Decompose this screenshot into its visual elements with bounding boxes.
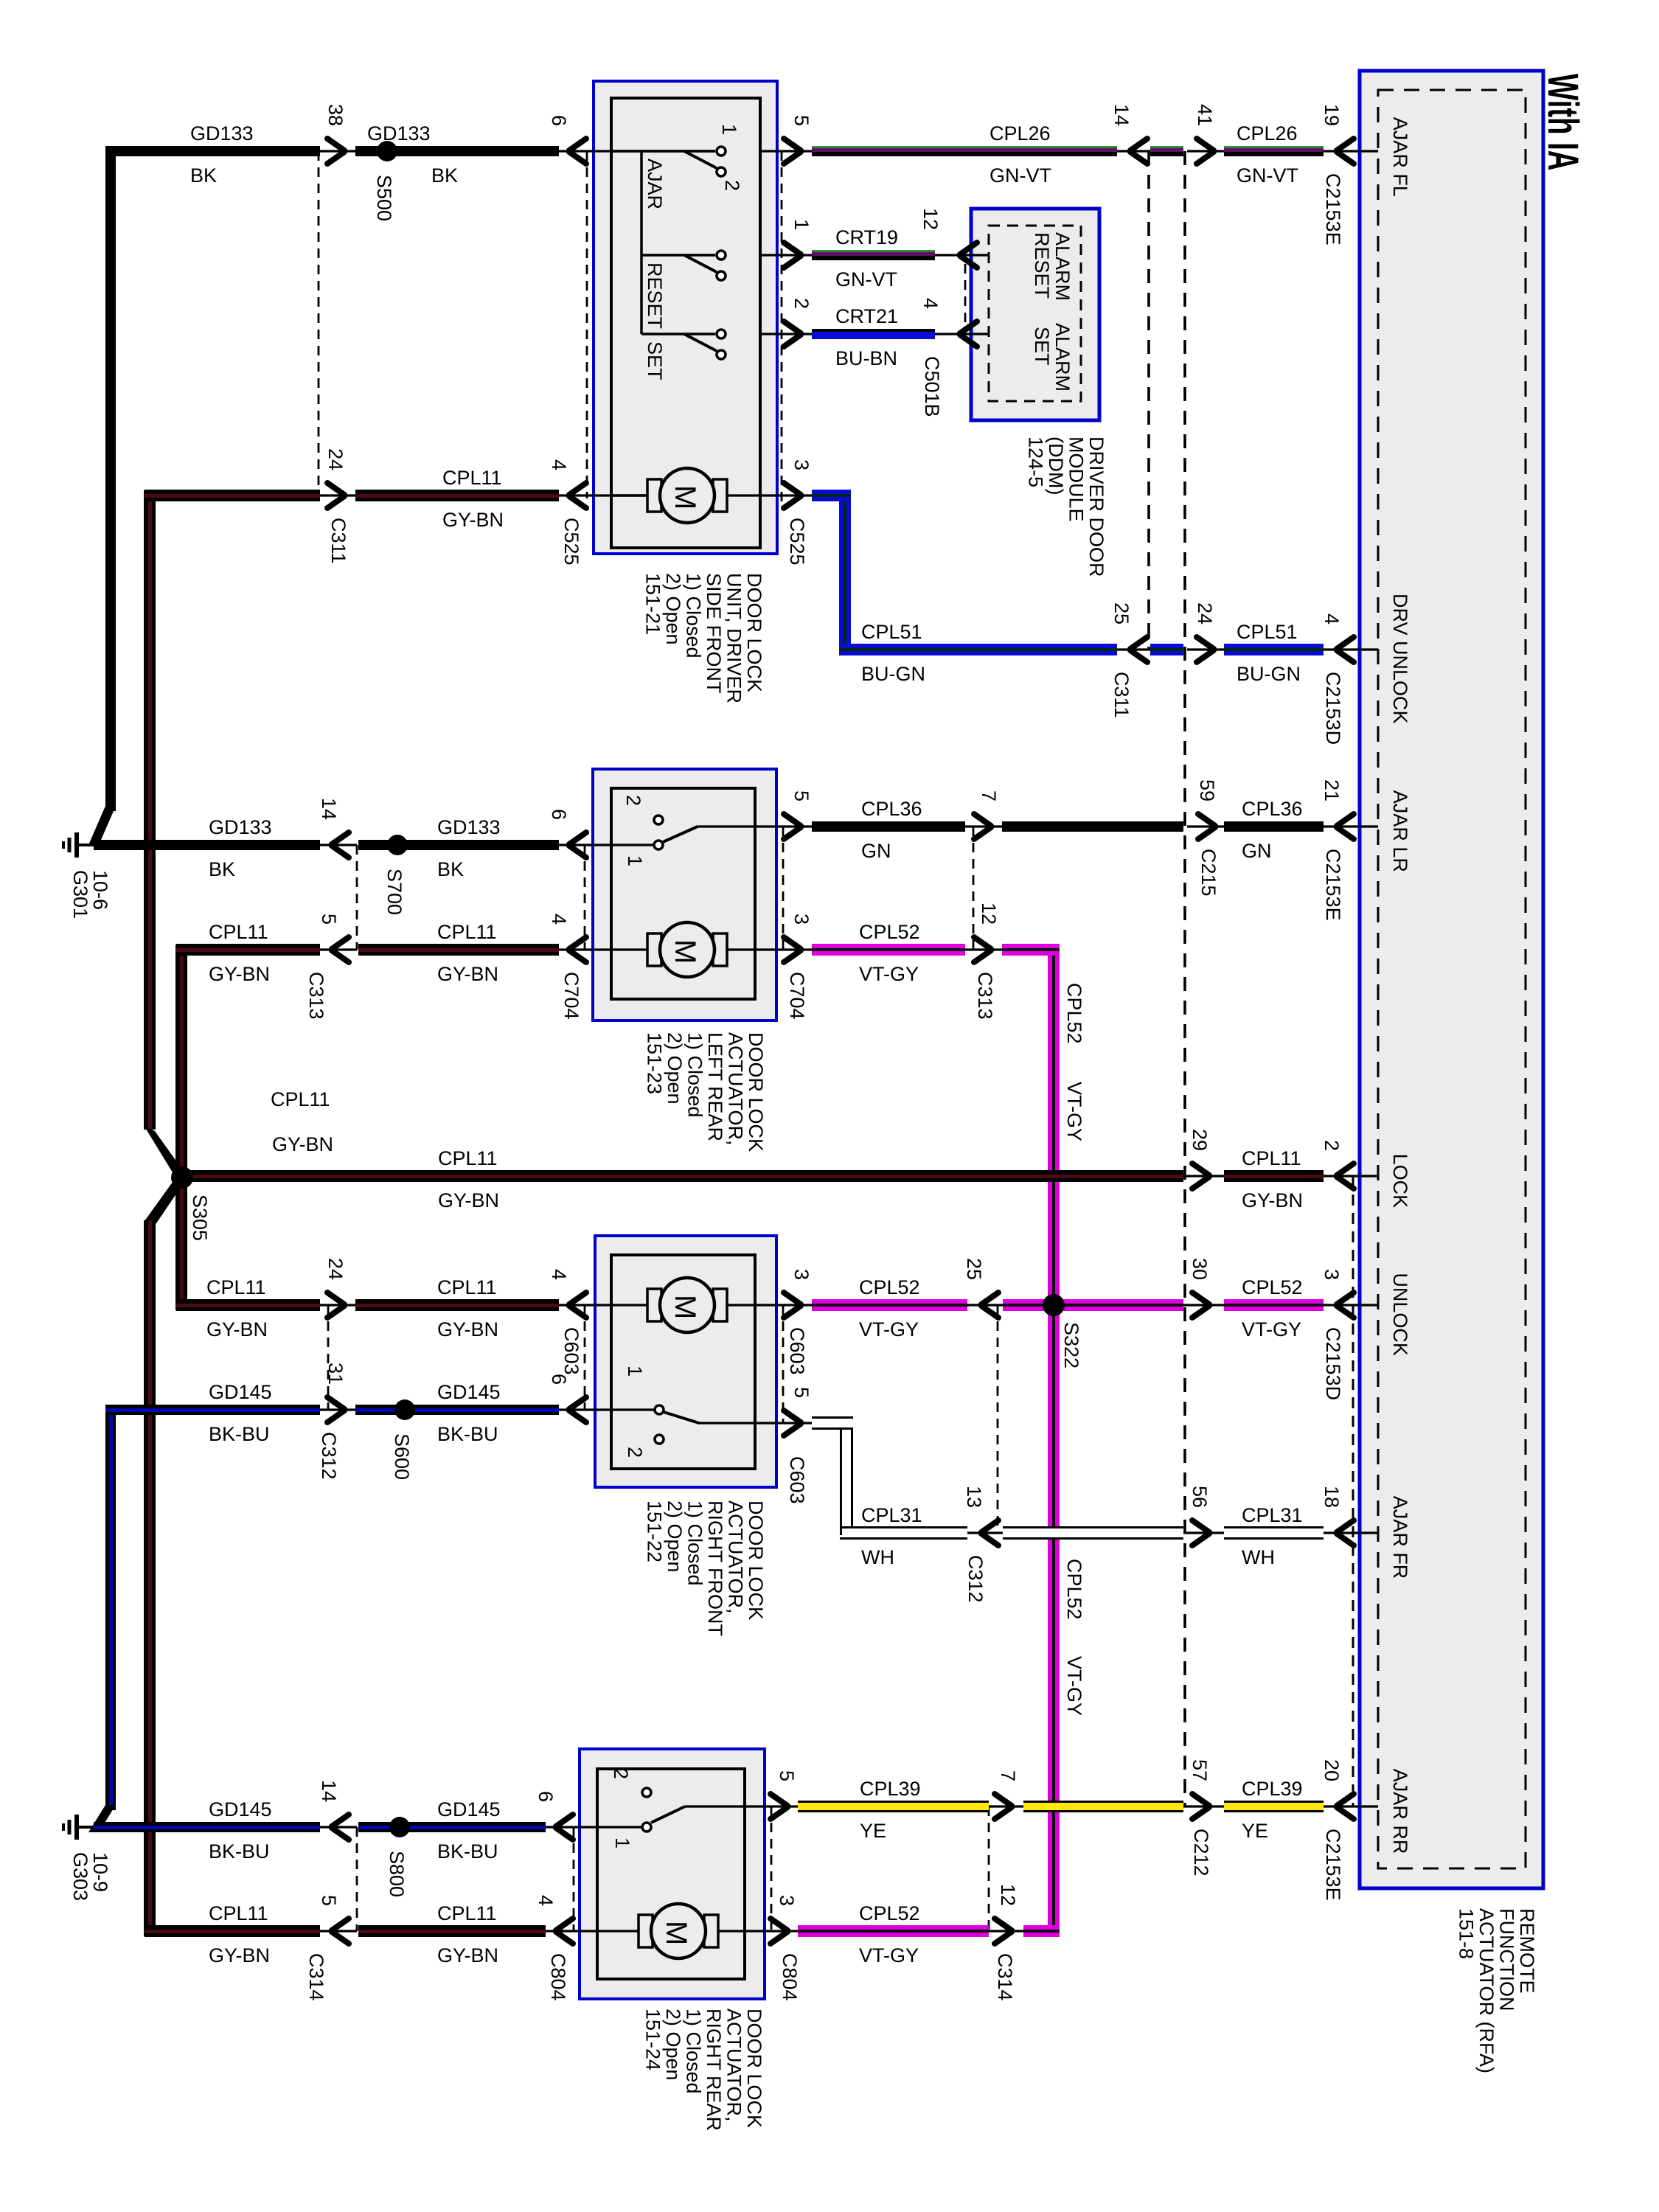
- svg-text:DOOR LOCK: DOOR LOCK: [743, 573, 765, 692]
- arrowhead pin 3 left: [1337, 1293, 1354, 1318]
- svg-text:GD133: GD133: [437, 816, 501, 838]
- arrowhead 31 right: [327, 1397, 344, 1422]
- svg-text:RESET: RESET: [644, 262, 666, 329]
- arrowhead pin 4 left: [556, 1919, 573, 1944]
- svg-text:29: 29: [1189, 1129, 1211, 1151]
- wire CPL52 VT-GY segment to RFA UNLOCK: [1224, 1299, 1324, 1311]
- arrowhead pin 5 right: [784, 139, 801, 164]
- driver unit internal bus: [640, 151, 643, 334]
- svg-text:UNIT, DRIVER: UNIT, DRIVER: [723, 573, 745, 703]
- wire CPL52 VT-GY segment S322 to C2153D: [1048, 1299, 1183, 1311]
- svg-text:C215: C215: [1197, 849, 1220, 897]
- wire CPL11 GY-BN segment to RFA LOCK: [1224, 1170, 1324, 1182]
- wire CPL11 thin lead to RR motor: [546, 1930, 639, 1932]
- svg-text:14: 14: [318, 798, 340, 820]
- svg-text:1: 1: [624, 1366, 646, 1377]
- ground G301: [63, 832, 111, 919]
- label RFA description: [1455, 1908, 1539, 2073]
- svg-text:GN-VT: GN-VT: [1237, 164, 1298, 187]
- wire GD145 connector thin line at 31: [320, 1408, 355, 1411]
- svg-text:CPL11: CPL11: [437, 921, 497, 943]
- svg-text:AJAR: AJAR: [644, 159, 666, 209]
- svg-text:ACTUATOR,: ACTUATOR,: [723, 2008, 745, 2122]
- connector C311 dashed line: [318, 151, 320, 498]
- svg-text:VT-GY: VT-GY: [1063, 1082, 1085, 1141]
- svg-text:151-21: 151-21: [642, 573, 664, 635]
- svg-text:6: 6: [548, 809, 570, 820]
- wire GD133 diagonal to ground junction: [88, 806, 116, 845]
- arrowhead 7 right: [974, 814, 991, 839]
- svg-text:18: 18: [1321, 1486, 1343, 1508]
- svg-text:GY-BN: GY-BN: [272, 1133, 333, 1155]
- svg-text:4: 4: [548, 459, 570, 470]
- svg-text:CPL36: CPL36: [1242, 798, 1303, 820]
- svg-text:57: 57: [1189, 1759, 1211, 1781]
- arrowhead 14 left: [1130, 139, 1147, 164]
- svg-text:C312: C312: [318, 1432, 340, 1480]
- svg-text:VT-GY: VT-GY: [859, 1318, 919, 1340]
- svg-text:GY-BN: GY-BN: [1242, 1189, 1303, 1211]
- wire CPL11 thin lead to LR motor: [559, 948, 647, 950]
- svg-text:C603: C603: [560, 1327, 582, 1375]
- wire CPL36 GN segment to RFA: [1224, 821, 1324, 832]
- svg-text:4: 4: [919, 298, 942, 309]
- wire CPL11 GY-BN segment corner to C312: [176, 1299, 320, 1311]
- svg-text:VT-GY: VT-GY: [859, 1944, 919, 1966]
- svg-text:BU-GN: BU-GN: [861, 663, 925, 685]
- label CPL26 GN-VT: [1237, 122, 1298, 187]
- wire CPL51 BU-GN segment corner to C311: [839, 644, 1117, 655]
- arrowhead pin 4 left: [960, 321, 977, 347]
- arrowhead 24 right: [327, 1293, 344, 1318]
- arrowhead pin 18 left: [1337, 1520, 1354, 1545]
- svg-text:10-9: 10-9: [89, 1852, 111, 1892]
- svg-text:VT-GY: VT-GY: [859, 963, 919, 985]
- svg-text:2) Open: 2) Open: [664, 1032, 686, 1105]
- svg-text:6: 6: [548, 115, 570, 126]
- wire CPL11 GY-BN vertical bus upper: [144, 490, 156, 1130]
- svg-text:12: 12: [978, 902, 1000, 925]
- wire RF motor lead to pin 3: [728, 1304, 812, 1306]
- wire CPL31 WH segment corner to C312: [840, 1526, 967, 1540]
- wire GD145 BK-BU segment S600 to RF box: [355, 1405, 559, 1415]
- svg-text:2: 2: [1321, 1140, 1343, 1151]
- wire GD133 thin lead into door lock unit pin 6: [559, 150, 715, 152]
- label CPL52 VT-GY: [859, 1276, 920, 1340]
- wire CPL11 GY-BN segment to LR box pin 4: [358, 944, 559, 956]
- connector C312 left dashed line: [327, 1305, 330, 1410]
- label CPL11 GY-BN: [437, 1902, 498, 1966]
- svg-text:C311: C311: [327, 518, 349, 564]
- svg-text:G301: G301: [69, 870, 91, 919]
- RF switch: [655, 1405, 699, 1444]
- connector C603 right dashed line: [782, 1305, 785, 1423]
- label GD145 BK-BU: [209, 1381, 272, 1445]
- box: DRIVER DOOR MODULE (DDM): [971, 209, 1099, 420]
- wire GD133 BK segment S700 to LR box: [358, 840, 559, 850]
- svg-text:S500: S500: [373, 175, 395, 221]
- wire CPL11 connector thin line at 29: [1183, 1175, 1224, 1177]
- arrowhead 41 right: [1197, 139, 1214, 164]
- label CPL52 VT-GY: [859, 921, 920, 985]
- svg-text:5: 5: [776, 1770, 798, 1781]
- svg-text:BK: BK: [431, 164, 458, 187]
- svg-text:GY-BN: GY-BN: [437, 1944, 498, 1966]
- svg-text:BU-GN: BU-GN: [1237, 663, 1301, 685]
- svg-text:CPL52: CPL52: [859, 1902, 920, 1924]
- svg-text:1: 1: [718, 124, 740, 135]
- label GD133 BK: [190, 122, 254, 187]
- wire CPL26 GN-VT short segment between connectors: [1150, 146, 1183, 156]
- wire CPL36 GN segment C313 to C215: [1002, 821, 1183, 832]
- svg-text:C2153D: C2153D: [1322, 1327, 1344, 1400]
- svg-text:1: 1: [624, 855, 646, 866]
- svg-text:3: 3: [790, 914, 813, 925]
- wire GD133 BK segment S500 to door unit: [355, 146, 559, 156]
- wire CPL11 connector thin line at 24: [320, 494, 355, 496]
- svg-text:C314: C314: [305, 1953, 327, 2001]
- svg-text:MODULE: MODULE: [1065, 437, 1088, 522]
- label CPL11 GY-BN: [209, 921, 270, 985]
- svg-text:BK-BU: BK-BU: [209, 1423, 270, 1445]
- svg-text:1) Closed: 1) Closed: [683, 573, 705, 658]
- wire CPL11 GY-BN segment to RR box pin 4: [358, 1925, 546, 1937]
- label GD133 BK: [367, 122, 458, 187]
- svg-text:C2153E: C2153E: [1322, 173, 1344, 246]
- svg-text:24: 24: [1194, 602, 1216, 625]
- connector C2153D dashed line: [1352, 1176, 1354, 1806]
- svg-text:GD145: GD145: [209, 1381, 272, 1403]
- arrowhead 30 right: [1192, 1293, 1209, 1318]
- svg-text:C804: C804: [547, 1953, 569, 2001]
- wire GD133 BK segment from bus to C311: [105, 146, 320, 156]
- svg-text:RESET: RESET: [1031, 232, 1053, 299]
- svg-text:GD133: GD133: [209, 816, 272, 838]
- wire CPL11 GY-BN segment to door unit pin 4: [355, 490, 559, 501]
- svg-text:56: 56: [1189, 1486, 1211, 1508]
- svg-text:2: 2: [790, 298, 813, 309]
- svg-text:12: 12: [919, 208, 942, 230]
- label CPL11 GY-BN floating: [271, 1088, 333, 1155]
- arrowhead 24 right: [327, 483, 344, 508]
- motor LR door lock motor: [647, 922, 727, 977]
- wire CPL52 VT-GY segment C313 to corner: [1002, 944, 1060, 956]
- wire CPL52 thin lead to RFA pin 3: [1324, 1304, 1378, 1306]
- arrowhead pin 6 left: [569, 832, 586, 858]
- svg-text:ACTUATOR,: ACTUATOR,: [725, 1500, 747, 1614]
- wire CPL26 thin line at pin 5: [760, 150, 812, 152]
- arrowhead 5 left: [332, 1919, 349, 1944]
- label CPL11 GY-BN: [209, 1902, 270, 1966]
- svg-text:BK: BK: [209, 858, 235, 880]
- wire CPL11 GY-BN vertical stub S305 to row3: [175, 1178, 187, 1310]
- connector C312 right dashed line: [997, 1305, 999, 1533]
- wire CPL52 VT-GY vertical run: [1048, 950, 1060, 1931]
- wire CPL52 VT-GY segment C312 to S322: [1003, 1299, 1060, 1311]
- svg-text:59: 59: [1196, 779, 1218, 801]
- connector C314 left dashed line: [356, 1827, 358, 1931]
- svg-text:UNLOCK: UNLOCK: [1389, 1273, 1411, 1356]
- label LR actuator description: [644, 1032, 768, 1152]
- svg-text:C501B: C501B: [921, 356, 943, 417]
- arrowhead pin 12 left: [960, 243, 977, 268]
- svg-text:CRT21: CRT21: [835, 305, 898, 327]
- label CPL36 GN: [1242, 798, 1303, 862]
- svg-text:25: 25: [1110, 602, 1133, 625]
- svg-text:GN-VT: GN-VT: [990, 164, 1051, 187]
- wire CPL11 GY-BN vertical from row2 corner to S305: [175, 945, 187, 1178]
- wire GD133 BK vertical bus: [105, 146, 116, 811]
- wire CPL52 VT-GY segment pin3 to C312: [812, 1299, 967, 1311]
- connector C313 left dashed line: [356, 845, 358, 950]
- wire CPL11 GY-BN segment from bus to C311: [145, 490, 320, 501]
- motor RR door lock motor: [639, 1904, 718, 1958]
- label CPL52 VT-GY: [1242, 1276, 1303, 1340]
- label CPL11 GY-BN: [1242, 1147, 1303, 1211]
- svg-text:CPL51: CPL51: [1237, 621, 1298, 643]
- svg-text:CPL26: CPL26: [990, 122, 1051, 145]
- label CPL51 BU-GN: [861, 621, 925, 685]
- wire CPL52 VT-GY bottom segment pin3 to C314: [798, 1925, 989, 1937]
- arrowhead 57 right: [1192, 1794, 1209, 1819]
- svg-text:C704: C704: [786, 972, 808, 1020]
- splice S322: [1043, 1294, 1065, 1316]
- svg-text:3: 3: [790, 1269, 813, 1280]
- svg-text:GD133: GD133: [190, 122, 254, 145]
- svg-text:2) Open: 2) Open: [664, 1500, 686, 1573]
- connector C804 right dashed line: [771, 1806, 773, 1931]
- svg-text:6: 6: [535, 1791, 557, 1802]
- wire CPL11 thin lead into door unit motor: [559, 494, 647, 496]
- svg-text:14: 14: [1110, 104, 1133, 126]
- svg-text:CPL11: CPL11: [442, 467, 502, 489]
- svg-text:CPL11: CPL11: [437, 1902, 497, 1924]
- wire GD145 BK-BU segment ground to C314: [94, 1822, 320, 1832]
- wire GD145 connector thin line at 14: [320, 1826, 357, 1828]
- arrowhead pin 4 left: [569, 483, 586, 508]
- label CPL39 YE: [860, 1778, 921, 1842]
- svg-text:C312: C312: [964, 1555, 987, 1603]
- splice S500: [377, 141, 397, 161]
- svg-text:25: 25: [963, 1258, 985, 1280]
- label GD145 BK-BU: [437, 1798, 501, 1863]
- connector C603 left dashed line: [584, 1305, 586, 1410]
- svg-text:19: 19: [1321, 104, 1343, 126]
- wire CPL26 GN-VT segment to C2153E: [812, 146, 1117, 156]
- svg-text:C525: C525: [786, 518, 808, 566]
- ground G303: [63, 1815, 111, 1901]
- wire CPL52 VT-GY segment pin3 to C313: [812, 944, 965, 956]
- svg-text:AJAR RR: AJAR RR: [1389, 1769, 1411, 1854]
- connector C704 right dashed line: [782, 827, 785, 950]
- wire CPL52 connector thin line at 12: [989, 1930, 1023, 1932]
- svg-text:S305: S305: [189, 1194, 211, 1241]
- svg-text:SET: SET: [1031, 327, 1053, 366]
- svg-text:GN: GN: [1242, 840, 1272, 862]
- svg-text:24: 24: [324, 1258, 347, 1280]
- wire CPL31 WH vertical segment: [840, 1423, 853, 1533]
- label DDM description: [1025, 437, 1108, 577]
- arrowhead pin 3 right: [771, 1919, 787, 1944]
- svg-text:WH: WH: [861, 1546, 894, 1568]
- arrowhead pin 6 left: [569, 1397, 586, 1422]
- svg-text:GD145: GD145: [437, 1798, 501, 1820]
- svg-text:WH: WH: [1242, 1546, 1275, 1568]
- arrowhead 14 left: [332, 1815, 349, 1840]
- wire CPL31 WH segment C312 to C215: [1003, 1526, 1183, 1540]
- wire CPL11 connector thin line at 5: [320, 1930, 357, 1932]
- arrowhead 5 left: [332, 937, 349, 962]
- svg-text:YE: YE: [1242, 1820, 1268, 1842]
- svg-text:21: 21: [1321, 779, 1343, 801]
- wire driver motor lead to pin 3: [728, 494, 812, 496]
- svg-text:30: 30: [1189, 1258, 1211, 1280]
- label CPL11 GY-BN: [442, 467, 504, 531]
- svg-text:GY-BN: GY-BN: [209, 963, 270, 985]
- svg-text:S322: S322: [1060, 1322, 1082, 1368]
- svg-text:5: 5: [790, 790, 813, 801]
- svg-text:REMOTE: REMOTE: [1516, 1908, 1538, 1994]
- svg-text:C525: C525: [560, 518, 582, 566]
- svg-text:(DDM): (DDM): [1045, 437, 1067, 495]
- wire CPL39 YE segment C314 to C212: [1023, 1801, 1183, 1812]
- label CPL31 WH: [861, 1504, 922, 1568]
- svg-text:CPL11: CPL11: [1242, 1147, 1301, 1169]
- svg-text:3: 3: [790, 459, 813, 470]
- wire CPL39 YE segment pin5 to C314: [798, 1801, 989, 1812]
- svg-text:4: 4: [1321, 613, 1343, 625]
- connector C501B dashed line: [964, 264, 967, 329]
- svg-text:BU-BN: BU-BN: [835, 347, 897, 369]
- wire GD145 BK-BU segment from bus to C312: [105, 1405, 320, 1415]
- arrowhead 12 right: [974, 937, 991, 962]
- svg-text:M: M: [669, 939, 701, 964]
- wire CPL52 connector thin line at 30: [1183, 1304, 1224, 1306]
- wire CPL51 thin lead to RFA pin 4: [1324, 648, 1378, 650]
- arrowhead pin 2 left: [1337, 1164, 1354, 1189]
- svg-text:C313: C313: [305, 972, 327, 1020]
- svg-text:38: 38: [324, 104, 347, 126]
- arrowhead pin 2 right: [784, 321, 801, 347]
- svg-text:7: 7: [978, 790, 1000, 801]
- svg-text:BK-BU: BK-BU: [437, 1840, 498, 1863]
- arrowhead pin 3 right: [784, 937, 801, 962]
- svg-text:BK-BU: BK-BU: [437, 1423, 498, 1445]
- wire GD145 thin lead to RF switch contact 1: [559, 1408, 655, 1411]
- box: DOOR LOCK ACTUATOR RIGHT FRONT: [595, 1236, 776, 1487]
- splice S700: [387, 835, 408, 855]
- svg-text:CPL51: CPL51: [861, 621, 922, 643]
- wire CPL36 connector thin line at 7: [965, 825, 1002, 827]
- arrowhead 24 right: [1197, 637, 1214, 662]
- arrowhead 38 right: [327, 139, 344, 164]
- svg-text:6: 6: [548, 1374, 570, 1385]
- svg-text:7: 7: [997, 1770, 1019, 1781]
- svg-text:GN: GN: [861, 840, 891, 862]
- svg-text:CRT19: CRT19: [835, 226, 898, 248]
- wire CPL11 diagonal from S305 down-left: [145, 1174, 186, 1225]
- svg-text:SIDE FRONT: SIDE FRONT: [703, 573, 725, 694]
- svg-text:AJAR FR: AJAR FR: [1389, 1496, 1411, 1579]
- svg-text:4: 4: [535, 1895, 557, 1906]
- svg-text:CPL11: CPL11: [437, 1276, 497, 1298]
- svg-text:CPL52: CPL52: [1242, 1276, 1303, 1298]
- wire CPL26 GN-VT segment to RFA: [1224, 146, 1324, 156]
- wire CPL39 thin line from RR switch pivot: [685, 1805, 798, 1807]
- connector C525 right dashed line: [781, 151, 783, 507]
- wire GD133 BK segment from ground to C313: [94, 840, 320, 850]
- label GD145 BK-BU: [209, 1798, 272, 1863]
- svg-text:YE: YE: [860, 1820, 886, 1842]
- wire CPL39 connector thin line at 57: [1183, 1805, 1224, 1807]
- arrowhead pin 21 left: [1337, 814, 1354, 839]
- label GD145 BK-BU: [437, 1381, 501, 1445]
- box: DOOR LOCK ACTUATOR RIGHT REAR: [580, 1749, 765, 1999]
- arrowhead pin 5 right: [784, 814, 801, 839]
- wire GD145 thin lead to RR switch contact 1: [546, 1826, 641, 1828]
- arrowhead 25 left: [981, 1293, 998, 1318]
- connector C215/C212 bold dashed line: [1183, 151, 1186, 1806]
- wire GD133 connector thin line at C311: [320, 150, 355, 152]
- svg-text:1: 1: [611, 1837, 633, 1848]
- svg-text:ALARM: ALARM: [1051, 232, 1074, 301]
- svg-text:4: 4: [548, 914, 570, 925]
- wire CPL11 GY-BN long segment S305 to C215: [182, 1170, 1183, 1182]
- connector C314 right dashed line: [988, 1806, 990, 1931]
- svg-text:M: M: [660, 1921, 692, 1945]
- connector C804 left dashed line: [573, 1827, 575, 1931]
- arrowhead pin 5 right: [784, 1411, 801, 1436]
- svg-text:S700: S700: [383, 869, 406, 915]
- svg-text:31: 31: [324, 1363, 347, 1385]
- wire CPL11 connector thin line at 5: [320, 948, 357, 950]
- svg-text:5: 5: [790, 1387, 813, 1398]
- wire WH corner patches: [840, 1416, 853, 1535]
- svg-text:C603: C603: [786, 1456, 808, 1504]
- wire CPL52 connector thin line at 12: [965, 948, 1002, 950]
- wire CPL39 thin lead to RFA pin 20: [1324, 1805, 1378, 1807]
- svg-text:ACTUATOR,: ACTUATOR,: [725, 1032, 747, 1146]
- svg-text:24: 24: [324, 448, 347, 470]
- arrowhead 56 right: [1192, 1520, 1209, 1545]
- arrowhead pin 5 right: [771, 1794, 787, 1819]
- arrowhead pin 1 right: [784, 243, 801, 268]
- label GD133 BK: [209, 816, 272, 880]
- wire CPL11 GY-BN segment corner to C314: [145, 1925, 320, 1937]
- label CPL11 GY-BN: [437, 1276, 498, 1340]
- svg-text:BK-BU: BK-BU: [209, 1840, 270, 1863]
- box: DOOR LOCK UNIT DRIVER SIDE FRONT: [594, 81, 777, 554]
- svg-text:CPL52: CPL52: [1063, 983, 1085, 1044]
- label ALARM ALARM / RESET SET inside DDM: [1031, 232, 1074, 392]
- svg-text:41: 41: [1194, 104, 1216, 126]
- label CPL31 WH: [1242, 1504, 1303, 1568]
- connector C704 left dashed line: [584, 845, 586, 950]
- arrowhead 25 left: [1130, 637, 1147, 662]
- svg-text:DOOR LOCK: DOOR LOCK: [745, 1500, 767, 1620]
- svg-text:With IA: With IA: [1539, 74, 1586, 170]
- wire CPL11 GY-BN segment to RF box pin 4: [355, 1299, 559, 1311]
- wire GD145 BK-BU vertical bus: [105, 1405, 116, 1810]
- label GD133 BK: [437, 816, 501, 880]
- wire CPL26 connector thin line at 41: [1187, 150, 1224, 152]
- wire CPL11 thin lead to RF motor: [559, 1304, 647, 1306]
- arrowhead 13 left: [981, 1520, 998, 1545]
- wire CPL51 BU-GN vertical segment: [839, 495, 851, 650]
- wire CRT21 thin line from SET switch: [760, 333, 812, 335]
- svg-text:C2153E: C2153E: [1322, 1829, 1344, 1901]
- svg-text:GD133: GD133: [367, 122, 431, 145]
